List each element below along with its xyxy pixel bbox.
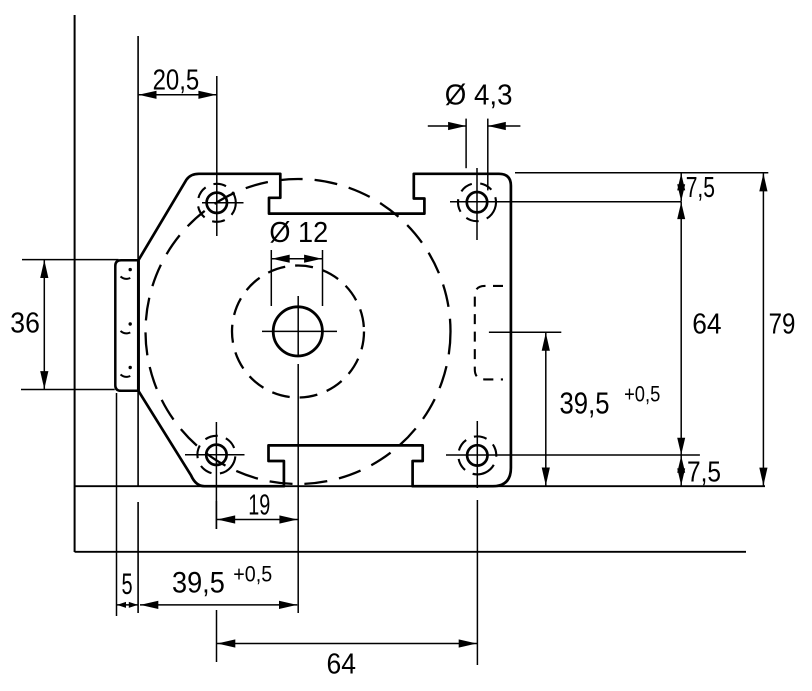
- dimension 5: [117, 568, 139, 608]
- dimension 20,5: [138, 64, 217, 99]
- tab spring mark 2: [129, 322, 132, 325]
- middle dashed circle: [232, 266, 364, 398]
- center hole centerline vertical: [297, 296, 299, 357]
- dimension diameter 4,3: [428, 79, 521, 190]
- mounting tab: [115, 260, 138, 391]
- part outline: [139, 174, 511, 486]
- svg-text:64: 64: [692, 308, 721, 340]
- svg-text:Ø 4,3: Ø 4,3: [445, 79, 513, 111]
- svg-text:20,5: 20,5: [153, 64, 200, 96]
- dimension 7,5 bottom right: [677, 455, 721, 488]
- bench bottom line: [75, 551, 746, 553]
- svg-text:19: 19: [248, 489, 270, 521]
- hole top-left: [207, 193, 227, 213]
- hole top-right: [467, 192, 487, 212]
- hole bottom-right: [467, 445, 487, 465]
- center hole centerline horizontal: [262, 330, 337, 332]
- svg-text:79: 79: [769, 308, 796, 340]
- svg-text:Ø 12: Ø 12: [269, 217, 328, 249]
- extension line tab-left plane x=116.5: [116, 393, 118, 616]
- dimension 79: [759, 173, 795, 486]
- large dashed pitch circle: [146, 179, 451, 484]
- svg-text:7,5: 7,5: [686, 172, 715, 204]
- body left edge behind tab: [137, 260, 140, 392]
- svg-text:39,5: 39,5: [172, 567, 225, 600]
- dimension 39,5 +0,5 right: [489, 332, 660, 486]
- svg-text:5: 5: [122, 568, 133, 601]
- svg-text:7,5: 7,5: [687, 457, 721, 489]
- svg-text:39,5: 39,5: [560, 387, 610, 421]
- bench top line: [75, 485, 765, 487]
- hole bottom-left: [206, 445, 226, 465]
- hidden latch recess (dashed): [475, 286, 503, 380]
- center hole D12: [273, 307, 322, 356]
- dimension 36: [10, 260, 118, 390]
- svg-text:64: 64: [327, 649, 357, 681]
- svg-text:+0,5: +0,5: [624, 382, 660, 407]
- tab spring mark 1: [129, 268, 132, 271]
- dimension 7,5 top right: [515, 172, 768, 204]
- svg-text:+0,5: +0,5: [233, 561, 272, 586]
- dimension 64 right: [677, 202, 721, 455]
- wall section line: [74, 15, 76, 552]
- dimension 64 bottom: [217, 500, 478, 681]
- svg-text:36: 36: [10, 307, 40, 339]
- dimension 19: [216, 489, 297, 529]
- dimension diameter 12: [269, 217, 328, 306]
- extension line left-edge plane x=138: [137, 36, 139, 486]
- tab spring mark 3: [129, 366, 132, 369]
- dimension 39,5 +0,5 bottom: [140, 561, 297, 609]
